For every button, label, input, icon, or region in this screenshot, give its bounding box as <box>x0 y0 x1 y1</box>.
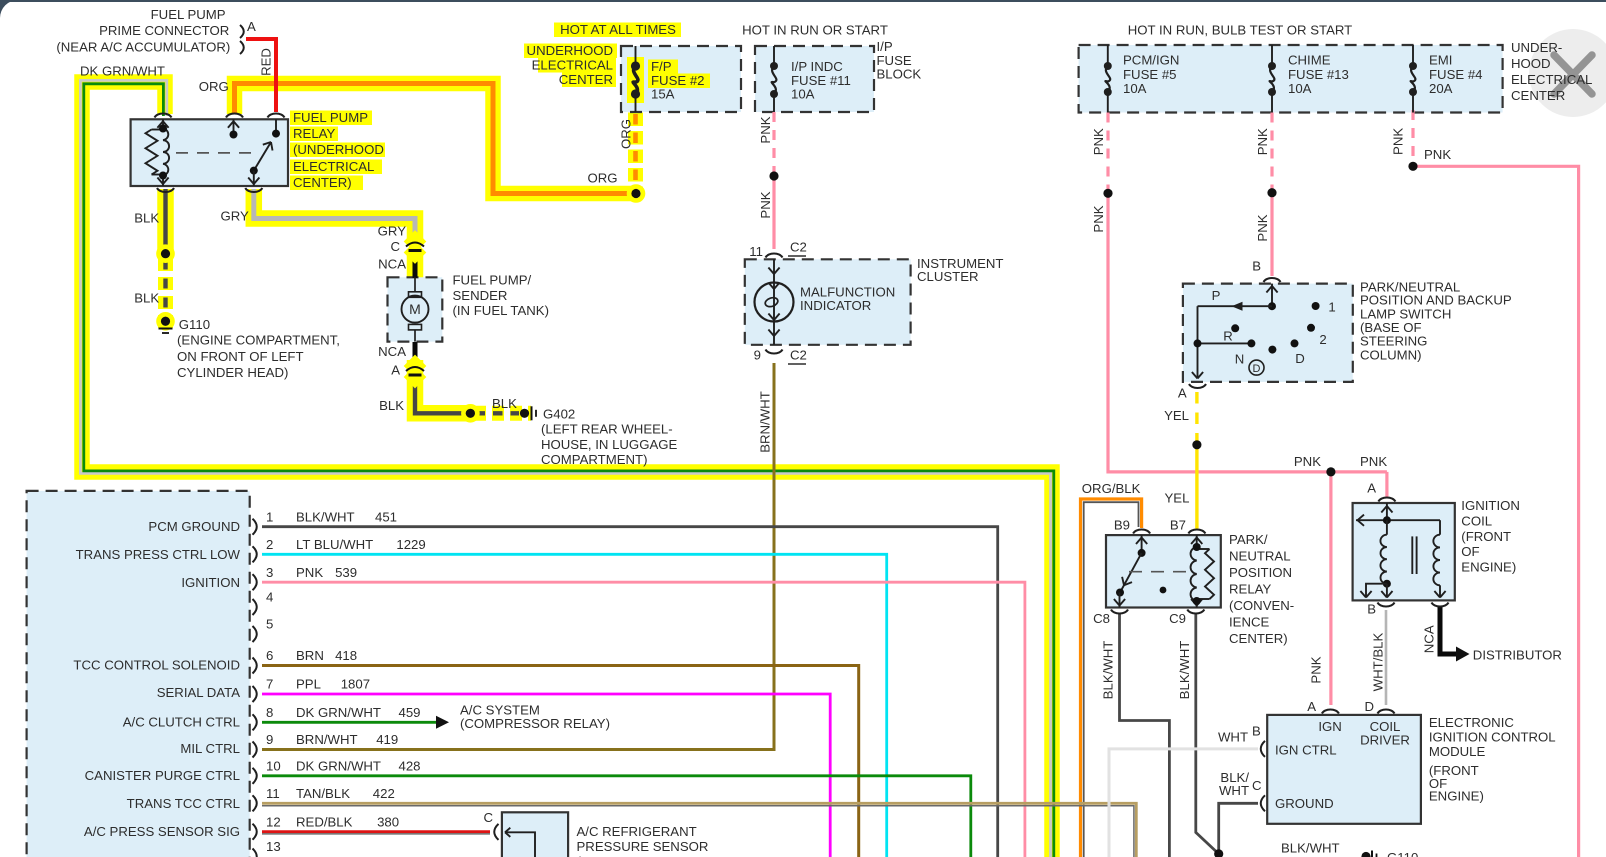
svg-text:PNK: PNK <box>1391 128 1406 155</box>
switch circled D <box>1249 360 1264 375</box>
switch contact dots <box>1312 302 1320 310</box>
splice dot BLK G402 <box>463 406 477 420</box>
svg-text:9: 9 <box>266 732 273 747</box>
svg-text:G110: G110 <box>1387 850 1418 857</box>
wire DK GRN/WHT 428 (pin10) <box>262 776 971 857</box>
wire ORG/BLK black stripe <box>1084 502 1139 857</box>
svg-text:PNK: PNK <box>1360 454 1387 469</box>
relay switch arm <box>254 142 271 171</box>
dialog rounded corner <box>0 0 18 18</box>
fuse EMI element <box>1412 45 1414 66</box>
svg-text:LT BLU/WHT: LT BLU/WHT <box>296 537 373 552</box>
svg-text:GROUND: GROUND <box>1275 796 1334 811</box>
svg-text:WHT: WHT <box>1219 783 1249 798</box>
svg-text:11: 11 <box>749 244 763 259</box>
svg-text:ORG/BLK: ORG/BLK <box>1082 481 1141 496</box>
coil top bar <box>1356 519 1440 521</box>
wire LT BLU/WHT 1229 (pin2) <box>262 554 887 857</box>
svg-text:(NEAR A/C ACCUMULATOR): (NEAR A/C ACCUMULATOR) <box>56 40 230 55</box>
wire GRY <box>254 189 415 243</box>
close button <box>1529 29 1606 117</box>
switch left vertical <box>1197 306 1199 378</box>
svg-text:ON FRONT OF LEFT: ON FRONT OF LEFT <box>177 349 304 364</box>
pn relay coil dots <box>1193 543 1201 551</box>
svg-text:OF: OF <box>1461 544 1479 559</box>
svg-text:CLUSTER: CLUSTER <box>917 269 979 284</box>
svg-text:DRIVER: DRIVER <box>1360 733 1410 748</box>
svg-text:11: 11 <box>266 786 280 801</box>
svg-text:9: 9 <box>754 348 761 363</box>
MIL arrows <box>768 268 774 275</box>
svg-text:C8: C8 <box>1093 611 1110 626</box>
wire PNK emi fuse <box>1411 110 1414 163</box>
svg-text:HOT AT ALL TIMES: HOT AT ALL TIMES <box>560 22 676 37</box>
svg-text:IENCE: IENCE <box>1229 615 1270 630</box>
svg-text:NCA: NCA <box>1422 625 1437 653</box>
junction dot BLK/WHT ground <box>1214 849 1223 857</box>
svg-text:BLK: BLK <box>492 396 517 411</box>
pn relay pin arcs <box>1133 529 1150 533</box>
svg-text:(FRONT: (FRONT <box>1461 529 1511 544</box>
wire DK GRN/WHT white stripe <box>80 80 1050 857</box>
svg-text:SENDER: SENDER <box>453 288 508 303</box>
svg-text:TAN/BLK: TAN/BLK <box>296 786 350 801</box>
svg-text:DISTRIBUTOR: DISTRIBUTOR <box>1473 648 1562 663</box>
svg-text:D: D <box>1295 351 1305 366</box>
fuel pump relay box <box>131 119 288 186</box>
svg-text:TRANS PRESS CTRL LOW: TRANS PRESS CTRL LOW <box>76 547 241 562</box>
svg-text:TRANS TCC CTRL: TRANS TCC CTRL <box>127 796 240 811</box>
svg-text:419: 419 <box>376 732 398 747</box>
wire ORG fuse drop dashed <box>633 114 638 189</box>
wire BLK relay to G110 splice <box>163 189 167 254</box>
svg-text:UNDERHOOD: UNDERHOOD <box>527 43 613 58</box>
wire BLK relay-to-G110 highlight band <box>157 189 174 257</box>
MIL lamp filament line <box>773 259 775 345</box>
fuel pump/sender box <box>388 277 443 341</box>
svg-text:BLK/WHT: BLK/WHT <box>1281 840 1340 855</box>
svg-text:CANISTER PURGE CTRL: CANISTER PURGE CTRL <box>85 768 240 783</box>
label FUEL PUMP RELAY <box>290 111 372 126</box>
svg-text:INDICATOR: INDICATOR <box>800 298 871 313</box>
svg-text:10A: 10A <box>1288 81 1312 96</box>
module pin B bracket <box>1261 741 1265 757</box>
svg-text:PNK: PNK <box>1309 656 1324 683</box>
svg-text:MIL CTRL: MIL CTRL <box>180 741 240 756</box>
wire GRY highlight band <box>254 189 415 246</box>
svg-text:STEERING: STEERING <box>1360 334 1427 349</box>
coil primary dot <box>1383 580 1391 588</box>
svg-text:BLK: BLK <box>134 291 159 306</box>
svg-text:CHIME: CHIME <box>1288 53 1331 68</box>
svg-text:ORG: ORG <box>619 119 634 149</box>
relay dashed link <box>176 152 252 154</box>
svg-text:(CONVEN-: (CONVEN- <box>1229 598 1294 613</box>
inline connector A (fuel pump) <box>404 355 427 378</box>
wire BLK G402 dashed <box>476 411 520 415</box>
svg-text:4: 4 <box>266 590 273 605</box>
svg-text:CENTER): CENTER) <box>1229 631 1288 646</box>
svg-text:COLUMN): COLUMN) <box>1360 347 1422 362</box>
svg-text:PNK: PNK <box>1424 147 1451 162</box>
fuse F/P lead <box>635 46 637 66</box>
instrument cluster box <box>745 259 911 345</box>
svg-text:BLK/WHT: BLK/WHT <box>1177 641 1192 700</box>
svg-text:PNK: PNK <box>296 565 323 580</box>
svg-text:ORG: ORG <box>587 170 617 185</box>
svg-text:HOT IN RUN OR START: HOT IN RUN OR START <box>742 22 888 37</box>
svg-text:IGN CTRL: IGN CTRL <box>1275 743 1337 758</box>
svg-text:PRESSURE SENSOR: PRESSURE SENSOR <box>577 839 709 854</box>
svg-text:RED/BLK: RED/BLK <box>296 815 353 830</box>
svg-text:15A: 15A <box>651 87 675 102</box>
wire PNK chime fuse <box>1270 113 1273 190</box>
splice dot YEL <box>1192 440 1201 449</box>
svg-text:PNK: PNK <box>1091 205 1106 232</box>
svg-text:ELECTRICAL: ELECTRICAL <box>1511 72 1592 87</box>
svg-text:GRY: GRY <box>378 224 407 239</box>
svg-text:7: 7 <box>266 677 273 692</box>
svg-text:PNK: PNK <box>758 191 773 218</box>
ground dot bottom right <box>1361 852 1370 857</box>
ground G402 dot <box>520 409 529 418</box>
wire DK GRN/WHT 459 (pin8) <box>262 721 436 724</box>
svg-text:10A: 10A <box>791 87 815 102</box>
switch R line <box>1198 342 1252 344</box>
PCM connector box <box>27 491 250 857</box>
wire NCA top (connector C to sender) <box>413 252 418 278</box>
wire BLK G110 dashed <box>163 260 167 319</box>
svg-text:NCA: NCA <box>378 257 406 272</box>
svg-text:1: 1 <box>1328 299 1335 314</box>
fuse F/P element <box>633 66 638 94</box>
svg-text:428: 428 <box>399 759 421 774</box>
svg-text:FUSE #5: FUSE #5 <box>1123 67 1177 82</box>
svg-text:BLOCK: BLOCK <box>877 67 922 82</box>
svg-text:CENTER: CENTER <box>1511 88 1565 103</box>
svg-text:PCM/IGN: PCM/IGN <box>1123 53 1179 68</box>
wire BRN 418 (pin6) <box>262 666 859 857</box>
svg-text:C: C <box>483 810 493 825</box>
svg-text:B: B <box>1252 724 1261 739</box>
svg-text:A: A <box>391 362 400 377</box>
svg-text:A/C REFRIGERANT: A/C REFRIGERANT <box>577 824 697 839</box>
wire NCA/BLK sender highlight band <box>407 250 424 282</box>
wire PNK 539 (pin3) <box>262 582 1025 857</box>
svg-text:UNDER-: UNDER- <box>1511 40 1562 55</box>
svg-text:12: 12 <box>266 814 281 829</box>
wire WHT/BLK coil B to module D <box>1385 610 1388 705</box>
svg-text:IGNITION: IGNITION <box>181 575 240 590</box>
coil primary winding <box>1380 535 1386 584</box>
svg-text:459: 459 <box>399 705 421 720</box>
svg-text:POSITION: POSITION <box>1229 565 1292 580</box>
relay switch pin stub <box>233 119 235 134</box>
wire TAN/BLK 422 (pin11) <box>262 803 1136 857</box>
relay coil inductor <box>163 129 169 176</box>
module pin arcs top <box>1322 709 1339 713</box>
wire PNK fuse#2 dashed <box>772 112 775 172</box>
svg-text:WHT/BLK: WHT/BLK <box>1371 632 1386 691</box>
wire ORG fuse-drop highlight band <box>628 113 643 190</box>
wire ORG/BLK <box>1081 499 1142 857</box>
underhood electrical center box (right) <box>1079 45 1503 113</box>
wire BLK/WHT from C9 <box>1196 613 1219 854</box>
splice dot PNK junction <box>1326 467 1335 476</box>
svg-text:(ENGINE COMPARTMENT,: (ENGINE COMPARTMENT, <box>177 333 340 348</box>
svg-text:10: 10 <box>266 759 281 774</box>
wire NCA bottom (sender to connector A) <box>413 342 418 367</box>
splice dot PNK emi <box>1408 162 1417 171</box>
ground G402 symbol <box>531 406 533 420</box>
svg-text:422: 422 <box>373 786 395 801</box>
svg-text:B7: B7 <box>1170 518 1186 533</box>
svg-text:451: 451 <box>375 509 397 524</box>
underhood electrical center box (F/P fuse) <box>621 46 741 112</box>
fuse F/P element highlight <box>627 57 644 103</box>
svg-text:RED: RED <box>259 48 274 76</box>
svg-text:A/C CLUTCH CTRL: A/C CLUTCH CTRL <box>123 715 240 730</box>
svg-text:PNK: PNK <box>1091 128 1106 155</box>
svg-text:ENGINE): ENGINE) <box>1429 789 1484 804</box>
svg-text:C2: C2 <box>790 240 807 255</box>
svg-text:FUSE #4: FUSE #4 <box>1429 67 1483 82</box>
switch P line <box>1198 305 1273 307</box>
coil core <box>1411 536 1413 574</box>
C2 underline bottom <box>788 363 806 365</box>
pn relay inductor <box>1191 547 1197 601</box>
a/c refrigerant pressure sensor box <box>502 812 568 857</box>
wire RED/BLK 380 (pin12) <box>262 830 490 833</box>
fuse CHIME element <box>1271 45 1273 66</box>
coil secondary winding <box>1439 520 1441 535</box>
svg-text:IGNITION: IGNITION <box>1461 498 1520 513</box>
svg-text:EMI: EMI <box>1429 53 1452 68</box>
coil pin A stub <box>1386 503 1388 521</box>
ignition coil box <box>1353 503 1455 600</box>
svg-text:YEL: YEL <box>1165 491 1190 506</box>
fuse PCM/IGN element <box>1107 45 1109 66</box>
svg-text:PNK: PNK <box>1255 214 1270 241</box>
svg-text:I/P: I/P <box>877 39 893 54</box>
wire NCA distributor <box>1440 607 1457 654</box>
svg-text:YEL: YEL <box>1164 408 1189 423</box>
svg-text:DK GRN/WHT: DK GRN/WHT <box>296 759 381 774</box>
relay switch lower stub <box>253 171 255 186</box>
svg-text:IGNITION CONTROL: IGNITION CONTROL <box>1429 729 1556 744</box>
wire ORG (relay to splice) <box>235 84 637 194</box>
I/P fuse block box <box>755 46 874 112</box>
wire PNK pcm/ign to coil A <box>1385 472 1388 497</box>
splice dot PNK chime <box>1267 188 1276 197</box>
dialog top border <box>0 0 1606 2</box>
svg-text:N: N <box>1235 352 1245 367</box>
svg-text:C2: C2 <box>790 347 807 362</box>
svg-text:FUEL PUMP: FUEL PUMP <box>151 7 226 22</box>
svg-text:(IN FUEL TANK): (IN FUEL TANK) <box>453 303 549 318</box>
C2 underline top <box>788 255 806 257</box>
wire BLK/WHT 451 (pin1) <box>262 527 998 857</box>
svg-text:FUEL PUMP/: FUEL PUMP/ <box>453 273 532 288</box>
svg-text:HOT IN RUN, BULB TEST OR START: HOT IN RUN, BULB TEST OR START <box>1128 22 1352 37</box>
svg-text:CENTER: CENTER <box>559 72 613 87</box>
svg-text:G402: G402 <box>543 406 575 421</box>
svg-text:PNK: PNK <box>758 116 773 143</box>
relay switch common <box>275 119 277 133</box>
svg-text:A: A <box>1178 385 1187 400</box>
svg-text:ORG: ORG <box>199 79 229 94</box>
svg-text:RELAY: RELAY <box>293 126 335 141</box>
svg-text:BLK/WHT: BLK/WHT <box>1101 641 1116 700</box>
splice dot PNK pcm/ign <box>1103 189 1112 198</box>
svg-text:CYLINDER HEAD): CYLINDER HEAD) <box>177 365 288 380</box>
prime connector arcs <box>240 25 244 38</box>
svg-text:5: 5 <box>266 617 273 632</box>
svg-text:M: M <box>409 301 421 317</box>
sensor arrow <box>505 832 535 857</box>
svg-text:FUSE #13: FUSE #13 <box>1288 67 1349 82</box>
label UNDERHOOD ELECTRICAL CENTER <box>524 44 617 59</box>
svg-text:D: D <box>1364 699 1374 714</box>
svg-text:NEUTRAL: NEUTRAL <box>1229 549 1291 564</box>
svg-text:PARK/: PARK/ <box>1229 532 1268 547</box>
svg-text:D: D <box>1253 363 1261 375</box>
svg-text:8: 8 <box>266 705 273 720</box>
svg-text:GRY: GRY <box>220 209 249 224</box>
svg-text:A: A <box>1307 699 1316 714</box>
coil pin A arc <box>1378 497 1395 501</box>
relay pin arcs <box>155 113 172 117</box>
wire PNK to module A <box>1329 472 1332 705</box>
svg-text:P: P <box>1212 288 1221 303</box>
svg-text:ELECTRICAL: ELECTRICAL <box>293 159 374 174</box>
svg-text:(LEFT REAR WHEEL-: (LEFT REAR WHEEL- <box>541 422 673 437</box>
svg-text:SERIAL DATA: SERIAL DATA <box>157 685 240 700</box>
svg-text:1229: 1229 <box>396 537 425 552</box>
wire YEL switch to relay B7 <box>1195 392 1198 441</box>
wire DK GRN/WHT highlight band <box>82 82 1052 857</box>
park/neutral position switch box <box>1183 284 1353 382</box>
label M motor <box>402 296 429 323</box>
fuse I/P INDC element <box>773 46 775 66</box>
pn relay small dot <box>1160 587 1167 594</box>
svg-text:20A: 20A <box>1429 81 1453 96</box>
svg-text:(UNDERHOOD: (UNDERHOOD <box>293 142 384 157</box>
svg-text:CENTER): CENTER) <box>293 175 352 190</box>
svg-text:MODULE: MODULE <box>1429 744 1486 759</box>
svg-text:DK GRN/WHT: DK GRN/WHT <box>296 705 381 720</box>
switch pin B stub <box>1271 284 1273 307</box>
svg-text:PPL: PPL <box>296 677 321 692</box>
wire WHT ign ctrl <box>1109 749 1258 857</box>
ground G110 dot <box>159 314 173 328</box>
svg-text:ELECTRONIC: ELECTRONIC <box>1429 715 1514 730</box>
svg-text:DK GRN/WHT: DK GRN/WHT <box>80 63 165 78</box>
svg-text:2: 2 <box>1319 332 1326 347</box>
svg-text:COIL: COIL <box>1461 514 1492 529</box>
coil primary exits <box>1386 584 1388 598</box>
PCM pin brackets <box>253 519 257 535</box>
svg-text:IGN: IGN <box>1318 719 1341 734</box>
pn relay coil stubs <box>1196 535 1198 547</box>
splice dot BLK <box>159 247 173 261</box>
svg-text:B: B <box>1252 258 1261 273</box>
svg-text:6: 6 <box>266 648 273 663</box>
svg-text:A/C PRESS SENSOR SIG: A/C PRESS SENSOR SIG <box>84 824 240 839</box>
svg-text:1: 1 <box>266 509 273 524</box>
wire PNK PCM/IGN fuse <box>1106 113 1109 191</box>
svg-text:HOUSE, IN LUGGAGE: HOUSE, IN LUGGAGE <box>541 437 678 452</box>
splice dot ORG <box>629 187 643 201</box>
svg-text:BLK/WHT: BLK/WHT <box>296 509 355 524</box>
pn relay resistor <box>1205 549 1214 599</box>
relay coil resistor <box>146 130 158 175</box>
relay coil pin stubs <box>162 119 164 128</box>
svg-text:PCM GROUND: PCM GROUND <box>148 519 240 534</box>
inline connector C (fuel pump) <box>404 230 427 253</box>
park/neutral position relay box <box>1106 535 1221 607</box>
svg-text:539: 539 <box>335 565 357 580</box>
electronic ignition control module box <box>1267 715 1421 824</box>
svg-text:HOOD: HOOD <box>1511 56 1551 71</box>
svg-text:10A: 10A <box>1123 81 1147 96</box>
wire ORG highlight band <box>235 84 638 194</box>
svg-text:3: 3 <box>266 565 273 580</box>
label HOT AT ALL TIMES <box>554 23 681 38</box>
cluster pin arcs <box>766 253 783 257</box>
svg-text:A: A <box>1367 481 1376 496</box>
svg-text:G110: G110 <box>179 317 210 332</box>
wire BLK sender to G402 <box>415 377 470 413</box>
svg-text:WHT: WHT <box>1218 730 1248 745</box>
svg-text:B9: B9 <box>1114 518 1130 533</box>
svg-text:380: 380 <box>377 815 399 830</box>
svg-text:418: 418 <box>335 648 357 663</box>
svg-text:13: 13 <box>266 839 281 854</box>
pn relay dashed link <box>1129 571 1191 573</box>
svg-text:ENGINE): ENGINE) <box>1461 559 1516 574</box>
svg-text:A: A <box>247 19 256 34</box>
svg-text:C: C <box>390 239 400 254</box>
svg-text:C: C <box>1252 778 1262 793</box>
MIL lamp circle <box>755 283 794 322</box>
MIL lamp loop <box>764 296 779 308</box>
svg-text:COMPARTMENT): COMPARTMENT) <box>541 452 647 467</box>
wire DK GRN/WHT green <box>84 84 1054 857</box>
module pin C bracket <box>1261 795 1265 811</box>
svg-text:(COMPRESSOR RELAY): (COMPRESSOR RELAY) <box>460 716 610 731</box>
svg-text:NCA: NCA <box>378 344 406 359</box>
svg-text:RELAY: RELAY <box>1229 582 1271 597</box>
wire PPL 1807 (pin7) <box>262 694 830 857</box>
switch pin arcs <box>1264 278 1281 282</box>
svg-text:F/P: F/P <box>651 59 672 74</box>
svg-text:R: R <box>1223 329 1233 344</box>
coil pin arcs bottom <box>1378 603 1395 607</box>
svg-text:B: B <box>1367 602 1376 617</box>
svg-text:I/P INDC: I/P INDC <box>791 59 843 74</box>
pn relay switch <box>1141 535 1143 553</box>
svg-text:PNK: PNK <box>1294 454 1321 469</box>
wire BLK/WHT from C8 <box>1120 613 1170 857</box>
svg-text:BRN/WHT: BRN/WHT <box>758 391 773 453</box>
svg-text:ELECTRICAL: ELECTRICAL <box>532 58 613 73</box>
svg-text:PNK: PNK <box>1255 128 1270 155</box>
svg-text:BLK: BLK <box>134 210 159 225</box>
svg-text:BLK: BLK <box>379 398 404 413</box>
ground G110 symbol <box>159 328 173 330</box>
svg-text:PRIME CONNECTOR: PRIME CONNECTOR <box>99 23 229 38</box>
